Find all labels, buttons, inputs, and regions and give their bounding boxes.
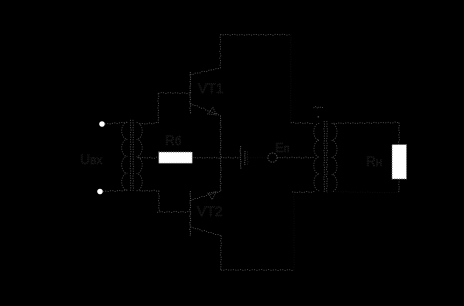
transformer T1 secondary winding	[137, 122, 143, 190]
wire emitter bus	[220, 116, 221, 192]
wire input bottom	[103, 190, 128, 192]
wire Rn bottom to T2 secondary bottom	[336, 179, 400, 193]
resistor Rn	[392, 145, 407, 179]
wire battery to Ep terminal	[246, 157, 268, 158]
wire R6 to battery	[192, 157, 239, 158]
svg-text:Rб: Rб	[165, 133, 182, 148]
label T2	[314, 107, 324, 118]
transistor VT2	[190, 191, 221, 236]
transistor VT1	[190, 68, 221, 115]
transformer T2 core	[324, 121, 328, 193]
wire top rail to T2 primary top	[290, 35, 314, 124]
wire Ep to T2 tap	[277, 157, 314, 158]
terminal input top	[99, 121, 105, 127]
svg-text:VT1: VT1	[198, 80, 224, 96]
transformer T1 primary winding	[122, 122, 128, 190]
wire VT1 collector riser	[220, 35, 221, 68]
terminal input bottom	[97, 189, 103, 195]
wire T1 secondary top to VT1 base	[140, 92, 191, 124]
svg-text:Uвх: Uвх	[80, 151, 103, 167]
transformer T2 secondary winding	[332, 123, 337, 192]
transformer T1 core	[130, 120, 134, 191]
wire top rail	[220, 34, 289, 35]
wire T1 secondary bottom to VT2 base	[140, 190, 191, 212]
wire bottom rail to T2 primary bottom	[292, 192, 315, 270]
svg-text:Еп: Еп	[275, 140, 290, 155]
wire T2 secondary top to Rn	[334, 122, 400, 145]
wire VT2 collector drop	[220, 236, 221, 270]
svg-text:VT2: VT2	[197, 203, 223, 219]
svg-text:Rн: Rн	[366, 154, 382, 169]
transformer T2 primary winding	[314, 123, 319, 191]
wire input top	[105, 122, 127, 124]
wire T1 tap to R6	[138, 157, 159, 158]
battery Ep cell	[240, 146, 248, 169]
terminal Ep	[268, 153, 277, 162]
wire bottom rail	[221, 269, 294, 270]
resistor R6	[159, 152, 193, 163]
